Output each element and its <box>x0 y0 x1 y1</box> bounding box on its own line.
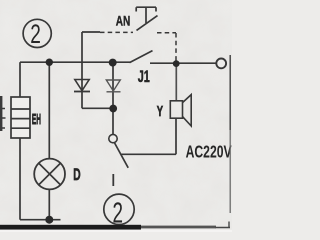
svg-text:Y: Y <box>157 103 163 120</box>
svg-text:AN: AN <box>116 13 131 29</box>
svg-text:2: 2 <box>113 197 123 229</box>
svg-text:AC220V: AC220V <box>186 142 232 162</box>
svg-text:J1: J1 <box>138 68 150 87</box>
svg-text:2: 2 <box>30 19 41 49</box>
svg-text:D: D <box>73 165 80 183</box>
svg-text:EH: EH <box>32 112 41 128</box>
